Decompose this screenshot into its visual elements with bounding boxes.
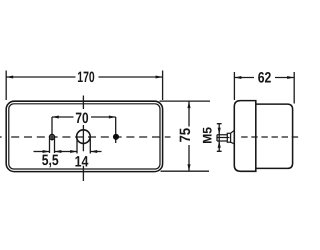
vertical center mark (3 segments, gaps at texts) (82, 96, 84, 182)
svg-text:170: 170 (77, 69, 94, 86)
side view centerline (241, 136, 299, 138)
center hole circle (77, 130, 91, 144)
M5 arrow line through stud (218, 134, 220, 141)
dimension 70: line with arrows (52, 116, 74, 118)
svg-text:14: 14 (75, 154, 89, 171)
14 extension legs (77, 139, 90, 154)
M5 stud: collar (227, 133, 230, 142)
dimension 62: line with arrows (235, 77, 254, 79)
front view: inner lens outline (9, 104, 160, 169)
dimension 170: extension lines (6, 71, 162, 101)
right mounting hole (114, 134, 119, 139)
dimension 75: extension lines (160, 101, 211, 171)
svg-text:62: 62 (258, 69, 272, 86)
M5 stud: cone to lamp body (231, 130, 235, 144)
front view: outer lens outline (6, 101, 162, 171)
svg-text:5,5: 5,5 (42, 152, 59, 169)
M5 dimension arrows (218, 124, 220, 135)
side view: housing profile (256, 104, 293, 168)
svg-text:M5: M5 (200, 127, 214, 144)
dimension 170: line with arrows (6, 76, 75, 78)
dimension 62: extension lines (234, 72, 294, 104)
dimension 70: legs down to holes (52, 117, 116, 143)
horizontal centerline (0, 136, 2, 138)
svg-text:75: 75 (177, 128, 194, 143)
5,5 / 14 arrow line segments (34, 151, 50, 153)
dimension 75: vertical line with arrows (188, 101, 190, 126)
M5 threaded stud: shank (217, 135, 230, 141)
5,5 extension legs (50, 138, 55, 153)
svg-text:70: 70 (75, 110, 88, 127)
side view: lens profile (234, 101, 256, 172)
left mounting hole (50, 135, 55, 140)
